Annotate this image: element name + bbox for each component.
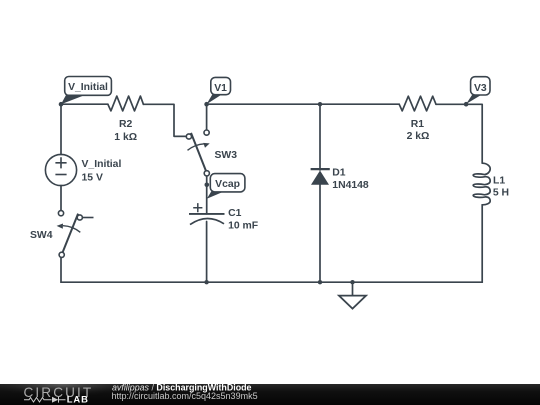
- junction dot: capacitor bottom at bus: [204, 280, 208, 284]
- inductor L1 coil: [473, 163, 490, 205]
- svg-text:http://circuitlab.com/c5q42s5n: http://circuitlab.com/c5q42s5n39mk5: [112, 391, 258, 401]
- wire SW4 top terminal up to voltage source: [60, 186, 62, 211]
- value label C1 10 mF: [228, 208, 258, 231]
- svg-text:15 V: 15 V: [82, 173, 103, 184]
- switch SW4: [57, 211, 94, 258]
- svg-text:V_Initial: V_Initial: [68, 82, 108, 93]
- wire L1 bottom down to bottom bus: [481, 205, 483, 282]
- ground stem: [352, 282, 354, 295]
- wire bottom bus: [61, 281, 482, 283]
- svg-text:1 kΩ: 1 kΩ: [114, 132, 137, 143]
- ground: [339, 296, 366, 309]
- voltage source V_Initial: [45, 154, 76, 185]
- svg-text:SW4: SW4: [30, 230, 53, 241]
- svg-text:D1: D1: [332, 168, 346, 179]
- value label V_Initial 15 V: [82, 159, 122, 184]
- junction dot: ground at bus: [350, 280, 354, 284]
- wire top bus left: node V_Initial to R2: [61, 103, 108, 105]
- footer bar: [0, 384, 540, 405]
- capacitor C1: [189, 203, 225, 225]
- svg-text:LAB: LAB: [67, 393, 89, 404]
- svg-text:L1: L1: [493, 176, 505, 187]
- wire diode D1 top: top bus down to diode: [319, 104, 321, 170]
- svg-text:R2: R2: [119, 119, 133, 130]
- svg-text:R1: R1: [411, 119, 425, 130]
- junction dot: diode top at bus: [318, 102, 322, 106]
- svg-text:V_Initial: V_Initial: [82, 159, 122, 170]
- diode D1: [311, 169, 330, 185]
- svg-text:V1: V1: [214, 83, 227, 94]
- node V3 flag: [464, 77, 490, 107]
- wire bottom bus up to SW4 bottom terminal: [60, 257, 62, 282]
- svg-text:V3: V3: [474, 83, 487, 94]
- svg-text:10 mF: 10 mF: [228, 220, 258, 231]
- node V_Initial flag: [59, 77, 112, 107]
- svg-text:2 kΩ: 2 kΩ: [407, 131, 430, 142]
- wire top bus: V1 node to R1: [207, 103, 400, 105]
- value label D1 1N4148: [332, 168, 369, 191]
- wire capacitor C1 bottom to bottom bus: [206, 222, 208, 283]
- wire V1 node down to SW3 top terminal: [206, 104, 208, 130]
- wire SW3 bottom terminal down to capacitor C1: [206, 176, 208, 214]
- wire R1 right to corner and down to L1: [436, 104, 482, 163]
- resistor R2: [108, 96, 143, 111]
- value label R1 2 kOhm: [407, 119, 430, 142]
- svg-text:SW3: SW3: [215, 150, 238, 161]
- resistor R1: [399, 96, 436, 111]
- logo resistor-diode glyph: [24, 397, 66, 403]
- value label L1 5 H: [493, 176, 509, 199]
- junction dot: diode bottom at bus: [318, 280, 322, 284]
- wire R2 right to SW3 left throw: [143, 104, 186, 136]
- switch SW3: [174, 130, 210, 176]
- value label R2 1 kOhm: [114, 119, 137, 143]
- svg-text:C1: C1: [228, 208, 242, 219]
- wire diode D1 bottom to bottom bus: [319, 185, 321, 282]
- svg-text:Vcap: Vcap: [215, 179, 240, 190]
- node V1 flag: [204, 77, 230, 106]
- svg-text:1N4148: 1N4148: [332, 180, 369, 191]
- wire voltage source top to node V_Initial: [60, 104, 62, 154]
- node Vcap flag: [205, 174, 245, 199]
- svg-text:5 H: 5 H: [493, 187, 509, 198]
